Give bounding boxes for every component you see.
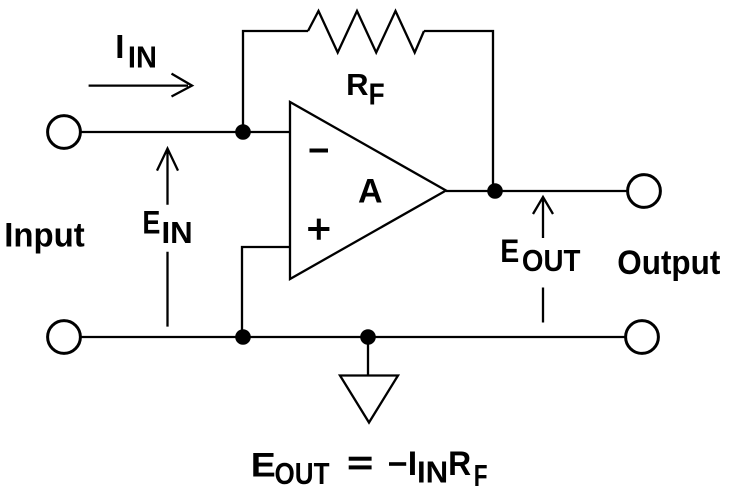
label EIN <box>142 205 192 250</box>
output terminal (top right) <box>628 175 661 208</box>
wire: input to inverting input <box>82 131 291 133</box>
op-amp non-inverting input label <box>308 219 329 240</box>
junction: ground node <box>360 329 376 345</box>
wire: op-amp output <box>446 190 627 192</box>
svg-text:A: A <box>358 173 383 211</box>
wire: feedback top-left segment <box>243 31 308 132</box>
op-amp inverting input label <box>310 149 329 153</box>
label EOUT <box>500 233 580 278</box>
input terminal (top left) <box>48 116 81 149</box>
svg-text:IN: IN <box>128 39 157 74</box>
voltage arrow EIN <box>157 149 178 327</box>
wire: non-inverting input <box>242 247 290 337</box>
svg-text:I: I <box>115 28 124 65</box>
equation EOUT = -IIN RF <box>251 445 488 491</box>
wire: bottom common rail <box>82 336 625 338</box>
svg-text:OUT: OUT <box>522 243 581 278</box>
svg-text:F: F <box>474 458 488 491</box>
svg-text:E: E <box>142 205 160 241</box>
wire: feedback top-right segment <box>424 31 493 191</box>
op-amp A <box>290 102 446 279</box>
svg-text:Input: Input <box>4 217 85 255</box>
svg-text:Output: Output <box>617 244 720 282</box>
svg-text:R: R <box>346 67 368 102</box>
junction: inverting input node <box>235 124 251 140</box>
voltage arrow EOUT <box>533 197 553 323</box>
current arrow IIN <box>89 74 192 97</box>
svg-text:IN: IN <box>417 455 448 490</box>
svg-text:OUT: OUT <box>275 456 330 491</box>
label IIN <box>115 28 157 74</box>
svg-text:E: E <box>251 447 276 485</box>
resistor RF <box>308 11 424 53</box>
junction: output node <box>487 183 503 199</box>
ground <box>340 340 398 423</box>
input terminal (bottom left) <box>48 321 81 354</box>
svg-text:R: R <box>448 445 471 483</box>
junction: non-inverting node <box>235 329 251 345</box>
svg-text:F: F <box>369 76 385 111</box>
svg-text:IN: IN <box>162 215 193 250</box>
output terminal (bottom right) <box>626 321 659 354</box>
svg-text:E: E <box>500 233 519 269</box>
svg-text:I: I <box>408 445 417 483</box>
